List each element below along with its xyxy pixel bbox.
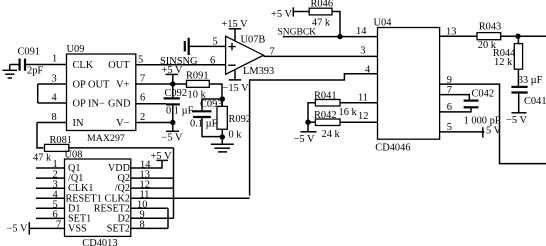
svg-text:R092: R092	[229, 114, 252, 125]
wire R046 right down to pin 14 net	[332, 12, 340, 37]
svg-text:R042: R042	[314, 110, 337, 121]
svg-text:R081: R081	[50, 135, 73, 146]
wire C093 bottom to ground node	[202, 117, 222, 137]
svg-text:U07B: U07B	[241, 35, 266, 46]
svg-text:SET2: SET2	[107, 224, 130, 235]
svg-text:R043: R043	[479, 22, 502, 33]
capacitor C092 0.1 uF	[164, 88, 194, 116]
svg-text:3: 3	[52, 74, 57, 85]
svg-text:R041: R041	[314, 91, 337, 102]
node junction dot (+5V/R091/C092)	[170, 81, 175, 86]
svg-text:CD4046: CD4046	[375, 142, 410, 153]
wire U08 pin 11 (CLK2) to U04 pin 4 riser	[131, 197, 250, 199]
svg-text:1: 1	[52, 54, 57, 65]
wire U09 pin6 to C092 bottom plate	[136, 103, 166, 105]
wire U08 pin 8 (SET2)	[131, 227, 168, 229]
svg-text:6: 6	[447, 102, 452, 113]
wire U04 pin 9 loop to right edge	[440, 84, 546, 164]
svg-text:V+: V+	[116, 79, 130, 90]
svg-text:V−: V−	[116, 118, 130, 129]
svg-text:6: 6	[210, 56, 215, 67]
wire U09 pin 4 stub	[38, 102, 67, 104]
wire U08 pin 1 stub	[36, 167, 65, 169]
wire SINSNG: U09 OUT to comparator inverting input	[136, 64, 226, 66]
wire U08 pin 13 (Q2) to riser	[131, 177, 174, 179]
wire riser R081/Q2/D2 vertical	[173, 148, 175, 218]
wire to comparator + input	[189, 45, 226, 47]
wire U08 pin 3 stub	[36, 187, 65, 189]
svg-text:33 µF: 33 µF	[518, 75, 543, 86]
svg-text:+5 V: +5 V	[271, 9, 292, 20]
svg-text:2pF: 2pF	[27, 66, 43, 77]
junction dot on pin2 wire	[170, 120, 175, 125]
wire U08 pin 10 (RESET2)	[131, 207, 168, 209]
svg-text:8: 8	[140, 220, 145, 231]
wire U04 pin 5 to -5V	[440, 131, 485, 133]
svg-text:+5 V: +5 V	[151, 151, 172, 162]
IC U04 CD4046 body	[374, 17, 440, 153]
svg-text:0 k: 0 k	[229, 130, 243, 141]
resistor R046 47 k	[309, 0, 333, 28]
power -5 V tick at U08 pin 7	[7, 222, 30, 234]
ground node dot	[220, 134, 225, 139]
capacitor C041 33 uF	[511, 75, 546, 107]
svg-text:−5 V: −5 V	[162, 133, 183, 144]
svg-text:−5 V: −5 V	[294, 134, 315, 145]
svg-text:47 k: 47 k	[33, 153, 52, 164]
svg-text:8: 8	[52, 112, 57, 123]
svg-text:OP IN−: OP IN−	[73, 98, 105, 109]
wire ground to C091	[10, 64, 20, 66]
svg-text:CD4013: CD4013	[82, 238, 117, 246]
wire U08 pin 6 stub	[36, 217, 65, 219]
svg-text:3: 3	[360, 46, 365, 57]
power +5 V tick at U08 pin 14	[151, 151, 172, 162]
svg-text:OUT: OUT	[108, 60, 130, 71]
svg-text:11: 11	[358, 93, 368, 104]
IC U08 CD4013 body	[65, 150, 131, 246]
wire R081 to U08 pin13 vertical	[69, 147, 174, 149]
node A junction dot	[220, 96, 225, 101]
svg-text:16 k: 16 k	[339, 107, 358, 118]
resistor R043 20 k	[477, 22, 501, 51]
wire C042 to U04 pin 6	[440, 107, 471, 112]
svg-text:C092: C092	[165, 88, 188, 99]
capacitor C093 0.1 uF	[190, 99, 223, 130]
wire U08 pin 14 to +5V	[131, 160, 162, 168]
wire U08 pin 4 stub	[36, 197, 65, 199]
wire U08 pin 9 (D2)	[131, 217, 174, 219]
svg-text:OP OUT: OP OUT	[73, 79, 111, 90]
svg-text:IN: IN	[73, 118, 84, 129]
svg-text:12 k: 12 k	[494, 57, 513, 68]
capacitor C042 1 000 pF	[464, 89, 501, 127]
input terminal (two-bar) at comparator + input	[185, 38, 189, 55]
wire R041/R042 left bracket	[308, 103, 315, 132]
svg-text:6: 6	[140, 92, 145, 103]
wire pin3-pin4 bracket vertical	[37, 84, 39, 103]
wire U08 pin 5 stub	[36, 207, 65, 209]
op-amp U07B LM393	[226, 35, 275, 78]
svg-text:U09: U09	[67, 44, 85, 55]
resistor R081 47 k	[33, 135, 72, 164]
wire U08 pin 12 (/Q2) to riser	[131, 187, 174, 189]
resistor R041 16 k	[314, 91, 357, 119]
wire U04 pin 13 to R043	[440, 35, 477, 37]
svg-text:2: 2	[140, 112, 145, 123]
svg-text:5: 5	[138, 55, 143, 66]
svg-text:13: 13	[446, 27, 456, 38]
wire pin8 down to R081	[37, 123, 44, 148]
wire R043 to right edge	[501, 35, 546, 37]
svg-text:CLK: CLK	[73, 60, 94, 71]
svg-text:7: 7	[140, 74, 145, 85]
wire -5V to U08 pin 7	[29, 227, 64, 229]
resistor R091 10 k	[186, 71, 209, 101]
wire C092 bottom to pin2 wire	[172, 104, 174, 122]
wire U09 pin7 to node	[136, 83, 187, 85]
power +5 V tick at R046	[271, 7, 293, 19]
wire C091 to U09 pin 1	[25, 64, 67, 66]
wire node down to C092	[172, 84, 174, 97]
resistor R042 24 k	[314, 110, 340, 140]
svg-text:C042: C042	[472, 89, 495, 100]
ground (left, at C091)	[3, 65, 18, 79]
wire comparator output to U04 pin 3	[264, 55, 378, 57]
wire SNGBCK to U04 pin 14	[283, 36, 378, 38]
power -15 V tick	[223, 71, 250, 95]
svg-text:LM393: LM393	[243, 66, 274, 77]
svg-text:0.1 µF: 0.1 µF	[190, 119, 218, 130]
svg-text:0.1 µF: 0.1 µF	[166, 105, 194, 116]
junction dot R042 left	[305, 120, 310, 125]
wire R044 to C041	[517, 69, 519, 86]
svg-text:−15 V: −15 V	[223, 83, 250, 94]
wire U09 pin 8 stub	[37, 122, 67, 124]
wire R091 right to node A	[209, 84, 222, 99]
wire U09 pin2	[136, 122, 173, 124]
wire R042 to U04 pin 12	[340, 121, 378, 123]
svg-text:24 k: 24 k	[322, 129, 341, 140]
wire RESET2-SET2 bracket vertical	[167, 208, 169, 228]
wire U04 pin 4 from U08 pin 11 riser	[250, 74, 378, 196]
wire R041 to U04 pin 11	[340, 102, 378, 104]
svg-text:7: 7	[447, 85, 452, 96]
svg-text:−5 V: −5 V	[506, 115, 527, 126]
svg-text:R046: R046	[311, 0, 334, 9]
wire U09 pin 3 stub	[38, 83, 67, 85]
svg-text:U04: U04	[374, 17, 393, 28]
resistor R044 12 k	[493, 36, 523, 69]
svg-text:4: 4	[365, 65, 371, 76]
power -5 V tick below C041	[506, 94, 527, 127]
svg-text:R091: R091	[186, 71, 209, 82]
wire +5V to R046	[293, 11, 309, 13]
svg-text:4: 4	[52, 93, 58, 104]
power -5 V tick below R042	[294, 132, 317, 145]
resistor R092 0 k	[217, 99, 251, 141]
svg-text:VSS: VSS	[68, 224, 87, 235]
svg-text:U08: U08	[65, 150, 83, 161]
power +15 V tick	[222, 19, 249, 41]
svg-text:C041: C041	[524, 96, 546, 107]
wire U04 pin 7 to C042	[440, 95, 470, 100]
junction dot R043/R044	[515, 34, 520, 39]
junction dot R046/pin14	[337, 34, 342, 39]
capacitor C091 2pF	[18, 47, 44, 77]
svg-text:5 V: 5 V	[486, 126, 502, 137]
svg-text:14: 14	[356, 26, 367, 37]
op-amp U09 MAX297 body	[67, 44, 136, 144]
svg-text:5: 5	[447, 122, 452, 133]
wire node A left to C093	[202, 99, 222, 110]
svg-text:MAX297: MAX297	[87, 133, 125, 144]
power +5 V tick at C092 node	[162, 65, 183, 84]
svg-text:7: 7	[56, 220, 61, 231]
svg-text:C091: C091	[18, 47, 41, 58]
svg-text:GND: GND	[108, 98, 131, 109]
svg-text:12: 12	[358, 111, 368, 122]
power -5 V tick below C092	[162, 123, 183, 144]
svg-text:−5 V: −5 V	[7, 223, 28, 234]
ground (below R092)	[211, 137, 234, 152]
power -5 V tick at pin 5	[483, 126, 502, 138]
wire U08 pin 2 stub	[36, 177, 65, 179]
